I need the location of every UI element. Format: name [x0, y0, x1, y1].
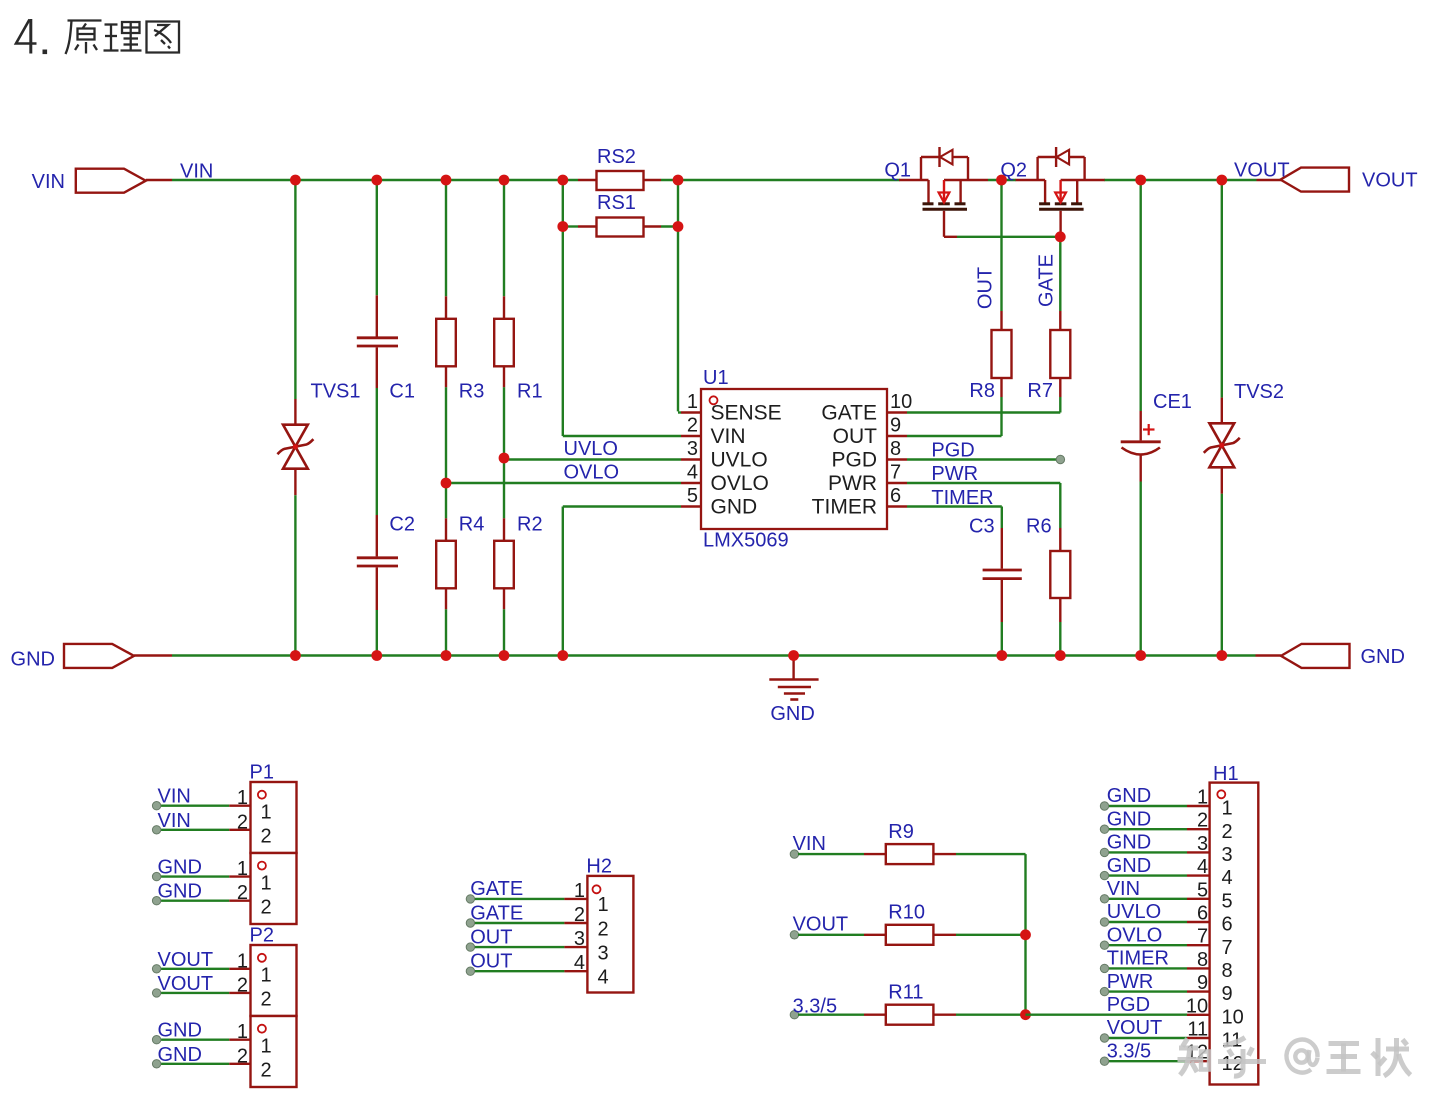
- svg-text:PWR: PWR: [931, 463, 978, 485]
- svg-text:R11: R11: [888, 982, 923, 1004]
- svg-text:TIMER: TIMER: [1107, 948, 1169, 970]
- svg-text:SENSE: SENSE: [711, 402, 782, 425]
- svg-text:OUT: OUT: [975, 267, 997, 309]
- svg-text:1: 1: [261, 872, 272, 894]
- svg-text:UVLO: UVLO: [564, 438, 618, 460]
- svg-text:2: 2: [237, 974, 248, 996]
- svg-text:3: 3: [598, 942, 609, 964]
- svg-text:OUT: OUT: [470, 926, 512, 948]
- svg-text:7: 7: [1197, 926, 1208, 948]
- svg-text:8: 8: [890, 438, 901, 460]
- svg-text:9: 9: [890, 415, 901, 437]
- svg-text:2: 2: [237, 811, 248, 833]
- svg-text:8: 8: [1222, 960, 1233, 982]
- svg-text:3: 3: [1222, 844, 1233, 866]
- svg-text:4: 4: [687, 462, 698, 484]
- svg-text:4: 4: [1197, 856, 1208, 878]
- svg-text:4: 4: [574, 952, 585, 974]
- svg-text:3: 3: [574, 928, 585, 950]
- svg-text:GND: GND: [1107, 832, 1151, 854]
- svg-text:GND: GND: [158, 1020, 202, 1042]
- svg-text:11: 11: [1187, 1019, 1208, 1041]
- svg-text:GND: GND: [1107, 785, 1151, 807]
- svg-text:2: 2: [1197, 810, 1208, 832]
- svg-text:9: 9: [1197, 972, 1208, 994]
- svg-text:GND: GND: [1107, 808, 1151, 830]
- svg-text:R4: R4: [459, 514, 485, 536]
- svg-text:3.3/5: 3.3/5: [793, 996, 837, 1018]
- svg-text:1: 1: [598, 894, 609, 916]
- svg-text:3: 3: [1197, 833, 1208, 855]
- svg-text:R1: R1: [517, 381, 543, 403]
- svg-text:5: 5: [1197, 879, 1208, 901]
- svg-text:1: 1: [261, 965, 272, 987]
- svg-text:4: 4: [598, 967, 609, 989]
- svg-text:3: 3: [687, 438, 698, 460]
- svg-text:GATE: GATE: [1036, 254, 1058, 307]
- svg-text:R7: R7: [1027, 380, 1053, 402]
- svg-text:UVLO: UVLO: [1107, 901, 1161, 923]
- svg-text:VIN: VIN: [32, 171, 65, 193]
- svg-text:GND: GND: [158, 857, 202, 879]
- svg-text:LMX5069: LMX5069: [703, 530, 789, 552]
- svg-text:2: 2: [1222, 821, 1233, 843]
- svg-text:C3: C3: [969, 516, 995, 538]
- svg-text:OVLO: OVLO: [1107, 924, 1163, 946]
- svg-text:8: 8: [1197, 949, 1208, 971]
- svg-text:GND: GND: [770, 703, 814, 725]
- svg-text:7: 7: [890, 462, 901, 484]
- svg-text:TIMER: TIMER: [812, 496, 877, 519]
- svg-text:6: 6: [1222, 914, 1233, 936]
- svg-text:R3: R3: [459, 381, 485, 403]
- svg-text:10: 10: [1222, 1006, 1244, 1028]
- svg-text:GATE: GATE: [470, 902, 523, 924]
- svg-text:P2: P2: [250, 925, 274, 947]
- svg-text:GATE: GATE: [821, 402, 877, 425]
- svg-text:PGD: PGD: [931, 440, 974, 462]
- svg-text:PGD: PGD: [831, 449, 877, 472]
- svg-text:1: 1: [261, 802, 272, 824]
- svg-text:VOUT: VOUT: [1362, 170, 1418, 192]
- svg-text:4: 4: [1222, 867, 1233, 889]
- svg-text:2: 2: [261, 1060, 272, 1082]
- svg-text:2: 2: [598, 918, 609, 940]
- svg-text:TIMER: TIMER: [931, 487, 993, 509]
- svg-text:H2: H2: [586, 856, 612, 878]
- svg-text:2: 2: [261, 989, 272, 1011]
- svg-text:1: 1: [574, 880, 585, 902]
- svg-text:GND: GND: [1107, 855, 1151, 877]
- svg-text:PWR: PWR: [828, 472, 877, 495]
- svg-text:OVLO: OVLO: [564, 462, 620, 484]
- svg-text:PGD: PGD: [1107, 994, 1150, 1016]
- svg-text:VOUT: VOUT: [1234, 160, 1290, 182]
- svg-text:1: 1: [237, 950, 248, 972]
- svg-text:TVS2: TVS2: [1234, 381, 1284, 403]
- svg-text:OUT: OUT: [470, 951, 512, 973]
- svg-text:6: 6: [1197, 903, 1208, 925]
- svg-text:VIN: VIN: [158, 810, 191, 832]
- svg-text:R6: R6: [1026, 516, 1052, 538]
- svg-text:9: 9: [1222, 983, 1233, 1005]
- svg-text:6: 6: [890, 485, 901, 507]
- svg-text:10: 10: [1186, 995, 1208, 1017]
- svg-text:2: 2: [261, 826, 272, 848]
- svg-text:1: 1: [261, 1036, 272, 1058]
- svg-text:VOUT: VOUT: [1107, 1017, 1163, 1039]
- svg-text:1: 1: [1222, 798, 1233, 820]
- svg-text:5: 5: [687, 485, 698, 507]
- svg-text:VIN: VIN: [711, 425, 746, 448]
- svg-text:7: 7: [1222, 937, 1233, 959]
- svg-text:VIN: VIN: [180, 161, 213, 183]
- svg-text:C1: C1: [389, 381, 415, 403]
- svg-text:10: 10: [890, 391, 912, 413]
- svg-text:VOUT: VOUT: [158, 973, 214, 995]
- svg-text:P1: P1: [250, 762, 274, 784]
- svg-text:VOUT: VOUT: [793, 914, 849, 936]
- svg-text:5: 5: [1222, 890, 1233, 912]
- svg-text:GND: GND: [1361, 646, 1405, 668]
- svg-text:GATE: GATE: [470, 878, 523, 900]
- svg-text:VIN: VIN: [1107, 878, 1140, 900]
- svg-text:R2: R2: [517, 514, 543, 536]
- svg-text:1: 1: [237, 858, 248, 880]
- svg-text:OUT: OUT: [833, 425, 878, 448]
- svg-text:1: 1: [237, 1021, 248, 1043]
- svg-text:GND: GND: [158, 1044, 202, 1066]
- svg-text:TVS1: TVS1: [311, 381, 361, 403]
- svg-text:GND: GND: [711, 496, 758, 519]
- svg-text:2: 2: [261, 897, 272, 919]
- svg-text:3.3/5: 3.3/5: [1107, 1040, 1151, 1062]
- svg-text:1: 1: [687, 391, 698, 413]
- svg-text:R10: R10: [888, 902, 925, 924]
- svg-text:CE1: CE1: [1153, 391, 1192, 413]
- svg-text:C2: C2: [389, 514, 415, 536]
- svg-text:VIN: VIN: [793, 833, 826, 855]
- svg-text:OVLO: OVLO: [711, 472, 769, 495]
- svg-text:PWR: PWR: [1107, 971, 1154, 993]
- svg-text:1: 1: [237, 787, 248, 809]
- svg-text:2: 2: [687, 415, 698, 437]
- svg-text:UVLO: UVLO: [711, 449, 768, 472]
- svg-text:VIN: VIN: [158, 786, 191, 808]
- svg-text:Q1: Q1: [884, 160, 911, 182]
- svg-text:GND: GND: [158, 881, 202, 903]
- svg-text:2: 2: [237, 1045, 248, 1067]
- svg-text:2: 2: [237, 882, 248, 904]
- svg-text:RS1: RS1: [597, 192, 636, 214]
- svg-text:RS2: RS2: [597, 146, 636, 168]
- svg-text:VOUT: VOUT: [158, 949, 214, 971]
- svg-text:1: 1: [1197, 787, 1208, 809]
- svg-text:U1: U1: [703, 367, 729, 389]
- svg-text:R9: R9: [888, 821, 914, 843]
- svg-text:2: 2: [574, 904, 585, 926]
- svg-text:GND: GND: [11, 649, 55, 671]
- svg-text:R8: R8: [969, 380, 995, 402]
